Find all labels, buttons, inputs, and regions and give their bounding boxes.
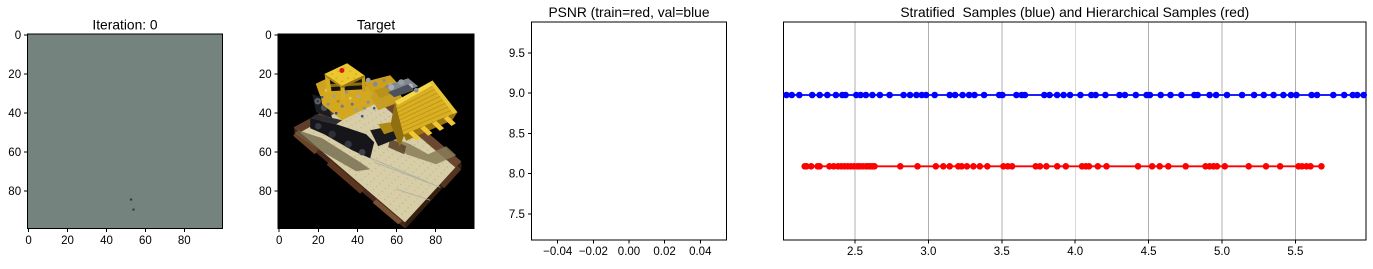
- svg-text:40: 40: [351, 235, 364, 247]
- svg-text:−0.04: −0.04: [543, 246, 573, 258]
- far track (rear left, dark): [312, 94, 332, 118]
- brown trim along top-left edge: [294, 85, 378, 133]
- engine hood / body mass: [320, 81, 382, 120]
- hierarchical samples (red): [805, 165, 1322, 167]
- scratch marks on plate: [356, 152, 440, 200]
- svg-text:20: 20: [8, 69, 21, 81]
- brown patches lower-left edge: [293, 132, 318, 155]
- svg-text:4.0: 4.0: [1067, 246, 1083, 258]
- svg-text:0.04: 0.04: [689, 246, 712, 258]
- svg-text:0: 0: [15, 30, 21, 42]
- track wheels: [315, 123, 321, 129]
- bucket rim top-left edge: [395, 81, 434, 105]
- svg-text:Iteration: 0: Iteration: 0: [92, 18, 158, 33]
- gray linkage atop bucket: [384, 78, 418, 95]
- subplot 2 axis ticks: [278, 229, 280, 233]
- stud dots: [303, 91, 454, 216]
- rear fender (yellow): [316, 79, 331, 96]
- svg-text:2.5: 2.5: [847, 246, 863, 258]
- upper body between cab and bucket: [363, 75, 400, 95]
- svg-text:60: 60: [139, 235, 152, 247]
- svg-text:5.0: 5.0: [1214, 246, 1230, 258]
- svg-text:3.5: 3.5: [994, 246, 1010, 258]
- svg-text:60: 60: [390, 235, 403, 247]
- svg-text:20: 20: [312, 235, 325, 247]
- svg-text:0: 0: [265, 30, 271, 42]
- main tracks (dark): [310, 118, 374, 158]
- svg-text:0.02: 0.02: [653, 246, 675, 258]
- front track section under bucket: [370, 126, 398, 146]
- svg-text:60: 60: [8, 147, 21, 159]
- bucket blade lip: [404, 112, 458, 140]
- subplot 3: PSNR axes box (empty): [531, 22, 726, 240]
- svg-text:60: 60: [259, 147, 272, 159]
- svg-text:0: 0: [276, 235, 282, 247]
- body gray studs: [333, 95, 336, 98]
- bucket interior: [395, 81, 458, 135]
- rear wheels (gray sprockets): [315, 98, 321, 104]
- svg-text:0.00: 0.00: [618, 246, 640, 258]
- svg-text:8.5: 8.5: [509, 128, 525, 140]
- svg-text:7.5: 7.5: [509, 209, 525, 221]
- svg-text:40: 40: [259, 108, 272, 120]
- cab pillars: [325, 73, 332, 94]
- svg-text:8.0: 8.0: [509, 169, 525, 181]
- red beacon: [339, 68, 344, 73]
- subplot 4: samples plot gridlines: [854, 22, 856, 240]
- subplot 3 axis ticks: [557, 240, 559, 244]
- svg-text:0: 0: [25, 235, 31, 247]
- baseplate side wall bottom-left (dark brown): [294, 127, 406, 229]
- shadow under bucket on plate: [394, 138, 456, 164]
- svg-text:80: 80: [429, 235, 442, 247]
- svg-text:PSNR (train=red, val=blue: PSNR (train=red, val=blue: [548, 5, 709, 20]
- bucket ribs: [396, 84, 455, 131]
- cab roof: [325, 63, 365, 86]
- svg-text:20: 20: [259, 69, 272, 81]
- subplot 2: Target lego image: [278, 34, 474, 229]
- cab dark interior: [327, 76, 364, 91]
- bucket left side wall: [391, 101, 405, 147]
- subplot 1: Iteration 0 rendered image (gray): [28, 34, 223, 229]
- svg-text:9.0: 9.0: [509, 88, 525, 100]
- shadow under bulldozer: [295, 130, 370, 171]
- svg-text:3.0: 3.0: [920, 246, 936, 258]
- roof studs: [331, 67, 357, 82]
- svg-text:Target: Target: [357, 18, 396, 33]
- small gray bits above cab right: [366, 78, 371, 83]
- baseplate side wall bottom-right: [405, 161, 462, 228]
- subplot 1 axis ticks: [28, 229, 30, 233]
- svg-text:5.5: 5.5: [1287, 246, 1303, 258]
- bucket rim top-right edge: [429, 81, 457, 115]
- stratified samples (blue): [786, 94, 1363, 96]
- svg-text:20: 20: [61, 235, 74, 247]
- brown trim along top-right edge: [366, 85, 461, 168]
- svg-text:80: 80: [8, 186, 21, 198]
- baseplate top (tan): [294, 85, 461, 222]
- svg-text:4.5: 4.5: [1141, 246, 1157, 258]
- svg-text:80: 80: [259, 186, 272, 198]
- svg-text:Stratified Samples (blue) and: Stratified Samples (blue) and Hierarchic…: [900, 5, 1249, 20]
- svg-text:−0.02: −0.02: [579, 246, 608, 258]
- teeth: [408, 131, 420, 141]
- svg-text:40: 40: [100, 235, 113, 247]
- svg-text:9.5: 9.5: [509, 48, 525, 60]
- brown patch right edge: [440, 166, 461, 189]
- small blue pieces: [335, 112, 338, 115]
- lift arm to bucket: [370, 88, 404, 110]
- svg-text:80: 80: [178, 235, 191, 247]
- svg-text:40: 40: [8, 108, 21, 120]
